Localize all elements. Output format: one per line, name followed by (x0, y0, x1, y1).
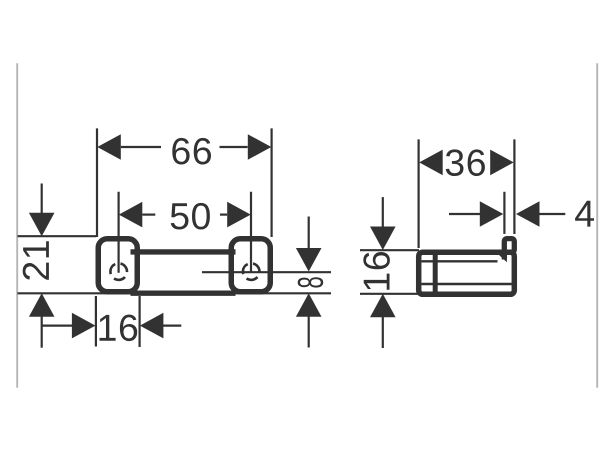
dim 4 line right (539, 213, 565, 215)
dim 50 arrow left (119, 202, 143, 228)
dim 21 arrow up (29, 293, 55, 317)
dim 16 label (100, 315, 138, 342)
dim 16 line left (42, 325, 73, 327)
left page frame line (16, 63, 18, 388)
mounting plate right (231, 239, 270, 292)
horizontal centerline (202, 271, 331, 273)
dim 8 label (298, 277, 324, 287)
dim 8 line top (308, 217, 310, 261)
mounting plate left (98, 239, 137, 292)
side view hook inner wall base (502, 250, 507, 260)
dim 66 line right (220, 146, 248, 148)
dim 21 line bottom (41, 305, 43, 348)
screw hole right (243, 263, 260, 280)
dim 66 ext line right (271, 128, 273, 237)
dim 16 side ext line bottom (360, 293, 419, 295)
dim 16 side arrow down (370, 227, 396, 251)
dim 4 ext line (503, 192, 505, 234)
side view hook tip (504, 239, 514, 253)
dim 36 arrow left (419, 150, 443, 176)
dim 66 arrow right (248, 134, 271, 160)
dim 36 arrow right (490, 150, 514, 176)
dim 50 label (171, 203, 210, 230)
dim 21 arrow down (29, 213, 55, 237)
side view body (419, 252, 515, 294)
dim 21 label (23, 241, 49, 280)
side view chamfer wedge (499, 255, 507, 263)
right page frame line (596, 63, 598, 388)
dim 50 line left (142, 214, 155, 216)
side view inner bottom line (422, 283, 512, 285)
dim 8 arrow up (296, 293, 322, 317)
dim 16 ext line left (95, 296, 97, 347)
dim 21 ext line bottom (18, 292, 332, 294)
dim 16 side ext line top (360, 249, 419, 251)
bar bottom edge (131, 291, 236, 296)
dim 16 side line bottom (382, 306, 384, 348)
dim 66 arrow left (97, 134, 121, 160)
dim 16 side line top (382, 197, 384, 239)
dim 21 ext line top (18, 235, 97, 237)
dim 16 side label (363, 252, 390, 290)
dim 16 side arrow up (370, 294, 396, 318)
bar top edge (131, 249, 236, 254)
centerline left plate (117, 192, 119, 273)
dim 66 line left (121, 146, 161, 148)
dim 16 ext line right (139, 296, 141, 347)
dim 36 label (446, 149, 485, 176)
centerline right plate (250, 192, 252, 273)
dim 16 arrow right (140, 313, 164, 339)
dim 16 line right (163, 325, 181, 327)
dim 4 arrow right (516, 201, 540, 227)
dim 4 label (575, 201, 594, 227)
dim 21 line top (41, 184, 43, 226)
dim 4 line left (449, 213, 482, 215)
side view wall plate divider (433, 250, 438, 298)
dim 36 ext line left (418, 139, 420, 248)
dim 50 line right (220, 214, 227, 216)
dim 8 line bottom (308, 305, 310, 348)
dim 66 label (172, 138, 211, 165)
dim 4 arrow left (480, 201, 504, 227)
dim 50 arrow right (227, 202, 251, 228)
dim 8 arrow down (296, 248, 322, 272)
side view inner top line (422, 260, 498, 262)
dim 36 ext line right (513, 139, 515, 234)
dim 66 ext line left (96, 128, 98, 237)
dim 16 arrow left (72, 313, 96, 339)
screw hole left (110, 263, 127, 280)
